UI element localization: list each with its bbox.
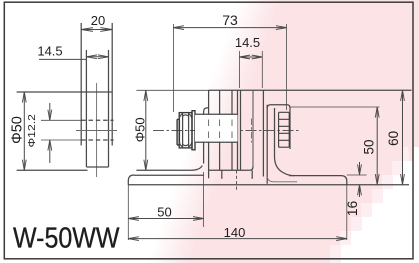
wheel groove line 2 [231,90,233,170]
axle bore hidden edge top (dashed) [81,119,113,121]
right plate inner bend to leg [275,108,295,176]
hub left edge + ext line for 14.5 dim [85,50,87,167]
svg-text:50: 50 [362,139,377,154]
dimension 14.5 right: line with arrows [239,56,262,58]
dimension 14.5 (left view) text leader [39,58,86,60]
wheel top edge + phi50 top extension [17,91,113,93]
dimension 60: line with arrows [402,90,404,184]
svg-text:16: 16 [344,201,360,217]
hex nut facet line 2 [188,113,190,148]
bolt shank bottom edge [195,141,238,143]
bolt shank top edge [195,113,238,115]
hex nut chamfer arcs [179,114,192,147]
hidden slot center stub (dashed) [236,170,238,190]
bracket leg right rounded end [341,176,347,185]
dimension phi50 right: top extension [136,89,208,91]
dimension 50 bottom: extension lines [127,185,129,240]
dimension phi12.2 extension lines [41,119,81,121]
dimension 20 line [81,29,112,31]
bracket leg top edge left segment [134,174,204,176]
bracket leg top edge right segment [289,175,341,177]
white staircase corner [330,147,419,263]
right plate inner radius line [267,176,297,182]
hub boss left face [240,90,242,170]
dimension 140: line with arrows [128,238,346,240]
yoke right plate outer face [266,105,268,184]
svg-text:60: 60 [386,131,401,146]
wheel bottom edge with upturn [209,167,253,171]
wheel face stub below wheel [251,170,253,179]
axle horizontal center line [76,130,117,132]
dimension 14.5 right: extension lines [238,51,240,88]
pink background region [147,0,419,263]
boss vertical center line [251,119,253,143]
svg-text:W-50WW: W-50WW [13,222,120,254]
svg-text:Φ12.2: Φ12.2 [26,114,38,148]
small washer left [177,119,179,145]
svg-text:Φ50: Φ50 [9,116,25,144]
svg-text:140: 140 [224,225,246,240]
dimension phi50 line (left view) [23,92,25,170]
wheel groove stub below wheel [221,170,223,179]
dimension phi12.2 line with outside arrows [49,103,51,120]
wheel right face upper [252,90,254,166]
dimension 16: leg top extension [347,174,367,176]
svg-text:50: 50 [157,204,171,219]
hub right edge + ext line for 14.5 dim [108,50,110,167]
bolt thread block [279,112,290,147]
yoke right inner face [262,90,264,176]
bracket leg left rounded end [128,175,134,185]
yoke left plate [204,108,209,164]
wheel right face [237,90,239,170]
wheel bottom edge + phi50 bottom extension [17,169,88,171]
svg-text:14.5: 14.5 [37,43,62,58]
hex nut facet line 1 [182,113,184,148]
yoke plate edge stub below wheel [208,170,210,178]
bracket leg bottom edge + extension to right [128,184,409,186]
dimension 73: extension lines [172,24,174,112]
dimension 14.5 (left view) arrow line [86,56,108,58]
bolt shank white cover [195,115,238,142]
dimension 50 right: line with arrows [376,107,378,185]
svg-text:14.5: 14.5 [235,35,260,50]
svg-text:73: 73 [222,12,238,28]
dimension 50 right: extension line from lip [290,106,380,108]
wheel groove line 1 [219,90,221,170]
wheel left face [208,90,210,170]
dimension 50 bottom: line with arrows [128,218,203,220]
wheel vertical center line [96,83,98,177]
washer behind nut [192,111,195,150]
wheel top edge + 60 extension line [209,89,412,91]
hidden hub dashes inside shank [209,120,232,139]
dimension 73: line with arrows [173,27,286,29]
wheel outer left edge + ext line for 20 dim [80,23,82,146]
svg-text:20: 20 [91,13,105,28]
axle bore hidden edge bottom (dashed) [81,139,113,141]
dimension phi50 right: line with arrows [145,90,147,170]
axle center line [153,130,300,132]
hex nut body [179,113,192,148]
right lip top edge with corner [267,105,290,149]
hub bottom edge [86,166,108,168]
dimension 16: arrows outside [359,162,361,175]
yoke left plate bottom bend [136,166,202,171]
wheel outer right edge + ext line for 20 dim [111,23,113,146]
dimension 140: extension right [346,185,348,240]
svg-text:Φ50: Φ50 [132,117,147,142]
